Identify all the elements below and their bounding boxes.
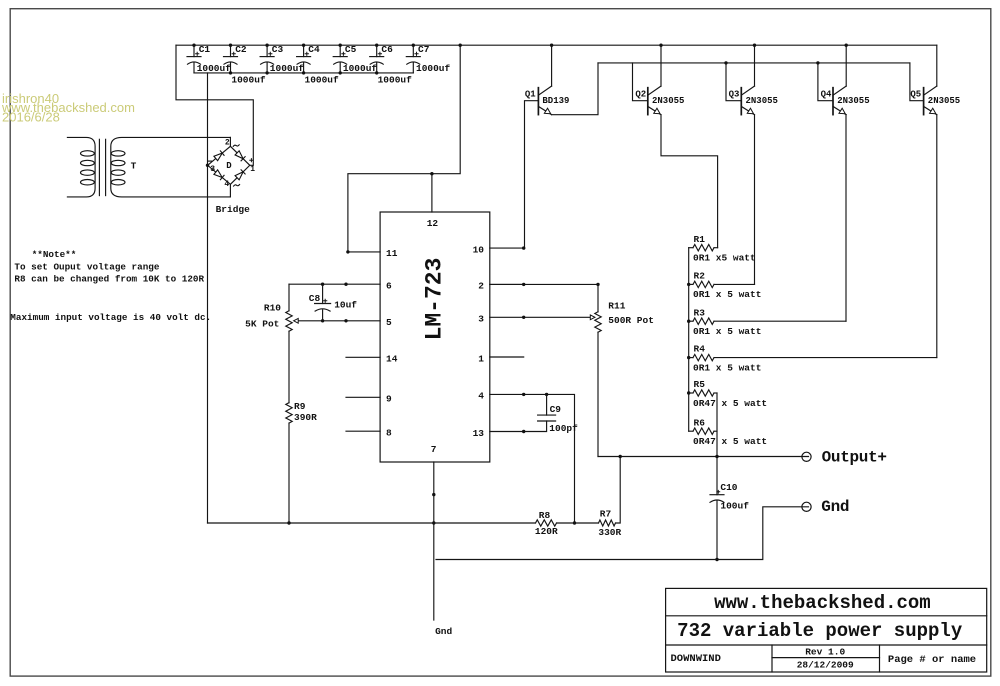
junction: pin2 stub end (522, 283, 525, 286)
svg-text:0R1 x 5 watt: 0R1 x 5 watt (693, 326, 761, 337)
wire: Q5 collector to V+ rail (936, 45, 938, 86)
svg-text:Q1: Q1 (525, 90, 536, 100)
potentiometer R10 5K (245, 284, 292, 331)
capacitor C1 1000uf (187, 44, 231, 74)
wire: bottom ground rail to Gnd terminal (436, 507, 809, 560)
svg-text:Output+: Output+ (822, 449, 887, 467)
svg-text:C6: C6 (381, 44, 393, 55)
svg-text:C8: C8 (309, 293, 321, 304)
wire: R11 bottom to output rail (597, 332, 599, 456)
wire: rail left feed down to bridge + (176, 45, 253, 165)
svg-text:Maximum input voltage is 40 vo: Maximum input voltage is 40 volt dc. (10, 312, 211, 323)
svg-text:Q5: Q5 (910, 90, 921, 100)
title block frame (666, 588, 987, 672)
junction: rail drop at x460 (459, 44, 462, 47)
svg-text:2N3055: 2N3055 (652, 96, 684, 106)
svg-text:C2: C2 (235, 44, 247, 55)
svg-text:R11: R11 (608, 301, 625, 312)
svg-text:C7: C7 (418, 44, 430, 55)
wire: pin 2 to R11 top node (490, 283, 598, 285)
junction: C8 bottom tap (321, 319, 324, 322)
svg-text:8: 8 (386, 428, 392, 439)
wire: Q1 collector to rail (551, 45, 553, 86)
svg-text:To set Ouput voltage range: To set Ouput voltage range (14, 262, 159, 273)
svg-text:Gnd: Gnd (435, 626, 452, 637)
junction: Q4 base on rail (816, 61, 819, 64)
svg-text:7: 7 (431, 444, 437, 455)
svg-text:10: 10 (473, 244, 485, 255)
wire: pin 7 down to Gnd stub (433, 462, 435, 620)
wire: pin 6 to R10 top (289, 283, 346, 285)
svg-text:3: 3 (478, 314, 484, 325)
wire: Q3 emitter to R2 (754, 115, 756, 285)
svg-text:2N3055: 2N3055 (837, 96, 869, 106)
junction: R7 tap on output rail (619, 455, 622, 458)
svg-text:C5: C5 (345, 44, 357, 55)
capacitor C8 10uf (309, 284, 358, 321)
svg-text:Q3: Q3 (729, 90, 740, 100)
svg-text:R8: R8 (539, 510, 551, 521)
transistor Q4 2N3055 (821, 86, 870, 115)
svg-text:11: 11 (386, 248, 398, 259)
junction: R5/R6/C10 node on output rail (715, 455, 718, 458)
svg-text:R2: R2 (694, 271, 706, 282)
svg-text:www.thebackshed.com: www.thebackshed.com (714, 592, 931, 614)
transistor Q3 2N3055 (729, 86, 778, 115)
svg-text:2016/6/28: 2016/6/28 (2, 109, 60, 124)
svg-text:1000uf: 1000uf (305, 75, 340, 86)
resistor R2 0R1 x 5 watt (689, 271, 762, 301)
svg-text:Q2: Q2 (635, 90, 646, 100)
wire: Q3 base from rail (726, 63, 741, 101)
resistor R3 0R1 x 5 watt (689, 307, 846, 337)
junction: R9 on ground bus (287, 521, 290, 524)
svg-text:1000uf: 1000uf (416, 63, 451, 74)
resistor R1 0R1 x5 watt (689, 234, 756, 264)
svg-text:2: 2 (225, 139, 230, 148)
svg-text:Q4: Q4 (821, 90, 832, 100)
svg-text:28/12/2009: 28/12/2009 (797, 659, 854, 670)
svg-text:1: 1 (250, 165, 255, 174)
svg-text:C10: C10 (720, 482, 737, 493)
wire: Q3 collector to V+ rail (754, 45, 756, 86)
svg-text:R4: R4 (694, 344, 706, 355)
capacitor C7 1000uf (406, 44, 450, 74)
svg-text:Bridge: Bridge (216, 204, 251, 215)
junction dots: caps on bottom rail (229, 71, 232, 74)
pin stubs U1 right (490, 248, 524, 431)
capacitor C2 1000uf (224, 44, 266, 86)
svg-text:5K Pot: 5K Pot (245, 319, 279, 330)
wire: Q4 emitter to R3 (845, 115, 847, 322)
resistor R8 120R (535, 510, 558, 537)
svg-text:2N3055: 2N3055 (928, 96, 960, 106)
capacitor C6 1000uf (370, 44, 412, 86)
svg-text:1: 1 (478, 353, 484, 364)
junction: pin12 tee (430, 172, 433, 175)
junction: C10 on bottom ground rail (715, 558, 718, 561)
junction: pin10 stub end (522, 246, 525, 249)
junction: pin2/R11 node (596, 283, 599, 286)
transistor Q2 2N3055 (635, 86, 684, 115)
resistor R7 330R (598, 509, 621, 538)
wire: Q5 emitter to R4 (936, 115, 938, 358)
wire: Q2 base from rail (633, 63, 648, 101)
wire: R9 to ground bus (288, 423, 290, 523)
svg-text:500R Pot: 500R Pot (608, 315, 654, 326)
svg-text:R8 can be changed from 10K to: R8 can be changed from 10K to 120R (14, 273, 204, 284)
svg-text:2N3055: 2N3055 (746, 96, 778, 106)
svg-text:6: 6 (386, 281, 392, 292)
capacitor C3 1000uf (260, 44, 304, 74)
svg-text:0R47 x 5 watt: 0R47 x 5 watt (693, 436, 767, 447)
wire: R10 to R9 (288, 331, 290, 403)
junction: Q2 collector on rail (659, 44, 662, 47)
svg-text:D: D (226, 161, 232, 171)
junction: C9 top tap (545, 393, 548, 396)
svg-text:R5: R5 (694, 379, 706, 390)
svg-text:1000uf: 1000uf (231, 75, 266, 86)
wire: top V+ rail (176, 44, 937, 46)
transformer T secondary winding (111, 137, 231, 197)
svg-text:R9: R9 (294, 401, 306, 412)
svg-text:4: 4 (224, 180, 229, 189)
junction: pin7 stub end (432, 493, 435, 496)
svg-text:C3: C3 (272, 44, 284, 55)
svg-text:Page # or name: Page # or name (888, 654, 976, 666)
junction: bridge negative node (206, 164, 209, 167)
wire: Q4 base from rail (818, 63, 833, 101)
svg-text:Gnd: Gnd (821, 498, 849, 516)
svg-text:R6: R6 (694, 417, 706, 428)
svg-text:0R47 x 5 watt: 0R47 x 5 watt (693, 398, 767, 409)
wire: pin 12 net to V+ rail and pin 11 (348, 45, 460, 252)
wire: bridge AC bottom feed (229, 184, 231, 197)
svg-text:4: 4 (478, 391, 484, 402)
wire: main negative vertical (bridge - to ground bus) (207, 73, 209, 523)
wire: Q5 base from rail (910, 63, 924, 101)
svg-text:0R1 x 5 watt: 0R1 x 5 watt (693, 362, 761, 373)
capacitor C5 1000uf (333, 44, 377, 74)
svg-text:12: 12 (427, 218, 439, 229)
svg-text:T: T (131, 161, 137, 172)
svg-text:R1: R1 (694, 234, 706, 245)
junction dots: caps on V+ rail (192, 44, 195, 47)
junction: pin4 stub end (522, 393, 525, 396)
wire: pin 4 net down to ground bus (524, 394, 575, 523)
wire: pin 5 to R10 wiper (297, 320, 346, 322)
svg-text:0R1 x 5 watt: 0R1 x 5 watt (693, 289, 761, 300)
svg-text:1000uf: 1000uf (378, 75, 413, 86)
wire: emitter resistor left bus (688, 248, 690, 432)
capacitor C9 100pf (538, 394, 579, 434)
transistor Q5 2N3055 (910, 86, 960, 115)
junction: pin13 stub end (522, 430, 525, 433)
pin number labels U1 (386, 218, 484, 455)
wire: Q2 emitter to R1 (661, 115, 718, 248)
wire: base drive rail Q2-Q5 (598, 62, 910, 64)
junction: Q4 collector on rail (845, 44, 848, 47)
wire: pin 10 to Q1 base (524, 101, 539, 248)
svg-text:C1: C1 (199, 44, 211, 55)
capacitor C10 100uf (710, 457, 749, 560)
resistor R4 0R1 x 5 watt (689, 344, 937, 374)
junction: Q3 collector on rail (753, 44, 756, 47)
svg-text:732 variable power supply: 732 variable power supply (677, 620, 963, 642)
svg-text:**Note**: **Note** (32, 249, 77, 260)
wire: pin 13 to C9 bottom (524, 421, 547, 432)
svg-text:C4: C4 (308, 44, 320, 55)
junction: C8 top tap (321, 283, 324, 286)
svg-text:13: 13 (473, 428, 485, 439)
junction: pin5 stub end (344, 319, 347, 322)
note text block (10, 249, 211, 323)
svg-text:R3: R3 (694, 307, 706, 318)
svg-text:100uf: 100uf (720, 501, 749, 512)
wire: ground bus horizontal (208, 457, 621, 524)
svg-text:10uf: 10uf (334, 300, 357, 311)
wire: Q2 collector to V+ rail (660, 45, 662, 86)
svg-text:14: 14 (386, 354, 398, 365)
svg-text:0R1 x5 watt: 0R1 x5 watt (693, 253, 756, 264)
resistor R6 0R47 x 5 watt (689, 417, 767, 447)
wire: output+ rail (598, 456, 809, 458)
junction: pin4 drop on ground bus (573, 521, 576, 524)
svg-text:3: 3 (210, 165, 215, 174)
svg-text:Rev 1.0: Rev 1.0 (805, 647, 845, 658)
resistor R5 0R47 x 5 watt (689, 379, 767, 409)
junction: pin6 stub end (344, 283, 347, 286)
transistor Q1 BD139 (525, 86, 570, 115)
potentiometer R11 500R (595, 284, 654, 332)
wire: capacitor bottom rail (194, 72, 413, 74)
wire: pin 3 to R11 wiper (524, 316, 591, 318)
svg-text:C9: C9 (550, 404, 562, 415)
pin stubs U1 left (346, 252, 380, 431)
svg-text:2: 2 (478, 281, 484, 292)
wire: Q1 emitter to base rail (552, 63, 598, 115)
svg-text:DOWNWIND: DOWNWIND (671, 653, 721, 665)
svg-text:BD139: BD139 (542, 96, 569, 106)
terminal Gnd (802, 502, 811, 511)
terminal Output+ (802, 452, 811, 461)
svg-text:120R: 120R (535, 526, 558, 537)
svg-text:LM-723: LM-723 (422, 258, 448, 341)
svg-text:100pf: 100pf (549, 423, 578, 434)
svg-text:5: 5 (386, 317, 392, 328)
svg-text:390R: 390R (294, 412, 317, 423)
svg-text:R7: R7 (600, 509, 612, 520)
transformer T core (99, 139, 105, 195)
wire: Q4 collector to V+ rail (845, 45, 847, 86)
transformer T primary winding (67, 137, 95, 197)
junction: pin7 on ground bus (432, 521, 435, 524)
svg-text:9: 9 (386, 394, 392, 405)
svg-text:330R: 330R (598, 527, 621, 538)
capacitor C4 1000uf (297, 44, 339, 86)
svg-text:R10: R10 (264, 302, 281, 313)
junction: pin3 stub end (522, 316, 525, 319)
junction: Q3 base on rail (724, 61, 727, 64)
junction: pin11 connection (346, 250, 349, 253)
bridge rectifier D (208, 139, 256, 215)
op-amp/regulator U1 LM-723 body (380, 212, 490, 462)
resistor R9 390R (286, 401, 317, 423)
watermark text (1, 91, 135, 125)
wire: bridge AC top feed (229, 137, 231, 146)
wire: R5/R6 right join to output rail (716, 393, 718, 457)
